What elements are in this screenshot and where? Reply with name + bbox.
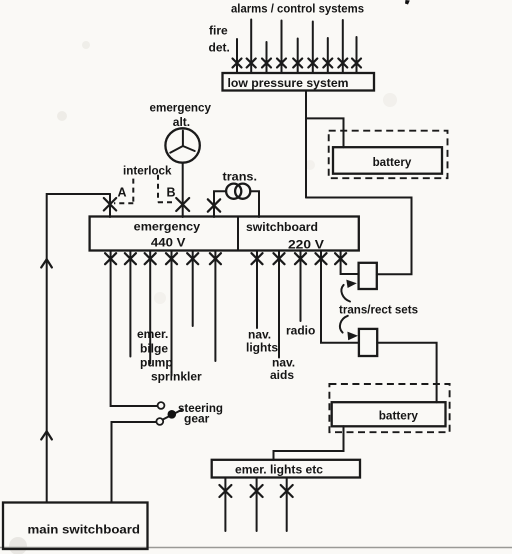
- generator G1 emergency alternator: [165, 128, 199, 162]
- fuse f6: [210, 253, 221, 264]
- trans/rect set 1: [359, 263, 377, 289]
- wire feeder f5: [192, 251, 194, 327]
- label: nav. aids: [270, 356, 295, 383]
- node label A: [118, 186, 127, 200]
- battery B1: [333, 147, 442, 174]
- fuse alarm feeder 9: [352, 59, 361, 68]
- wire feeder s3 (radio): [300, 251, 302, 322]
- svg-text:gear: gear: [184, 412, 210, 426]
- fuse f3: [145, 253, 156, 264]
- fuse f2: [125, 253, 136, 264]
- wire alarm feeder 6: [312, 22, 314, 74]
- battery B2: [332, 402, 446, 426]
- steering gear changeover switch terminal 2: [156, 418, 163, 425]
- wire feeder f6: [214, 251, 216, 362]
- wire alarm feeder 1: [236, 39, 238, 73]
- label: emergency alt.: [150, 101, 212, 130]
- wire alarm feeder 2: [250, 20, 252, 74]
- scan artifact top right: [405, 0, 410, 5]
- label: alarms / control systems: [231, 2, 364, 16]
- transformer T1 winding 2: [235, 184, 250, 199]
- fuse alarm feeder 6: [308, 59, 317, 68]
- fuse alarm feeder 8: [338, 59, 347, 68]
- fuse transformer leg: [208, 199, 220, 211]
- wire low pressure system to batteries: [305, 91, 307, 198]
- wire trans/rect set 2 to battery 2: [377, 343, 436, 402]
- wire alarm feeder 3: [266, 42, 268, 73]
- svg-text:440 V: 440 V: [151, 236, 186, 250]
- emergency switchboard box: [90, 217, 359, 251]
- svg-text:bilge: bilge: [140, 342, 168, 356]
- svg-text:battery: battery: [373, 155, 412, 169]
- steering switch blade: [163, 410, 182, 420]
- breaker A fuse: [104, 198, 116, 211]
- wire feeder f2: [129, 251, 131, 357]
- wire main switchboard to steering: [112, 422, 157, 503]
- fuse f4: [166, 253, 177, 264]
- svg-text:alt.: alt.: [173, 115, 190, 129]
- svg-text:trans.: trans.: [223, 170, 258, 184]
- wire lights feeder 3: [286, 478, 288, 532]
- interlock dashed link B: [158, 175, 175, 202]
- wire transformer left leg: [214, 191, 226, 217]
- wire lights feeder 1: [224, 478, 226, 532]
- pointer arrow to trans/rect set 1: [341, 280, 356, 302]
- fuse alarm feeder 5: [293, 59, 302, 68]
- svg-text:nav.: nav.: [248, 328, 271, 342]
- svg-text:radio: radio: [286, 324, 315, 338]
- transformer T1 winding 1: [226, 184, 241, 199]
- fuse f5: [187, 253, 198, 264]
- battery 1 dashed enclosure: [329, 131, 448, 179]
- label: trans/rect sets: [339, 303, 418, 317]
- label: interlock: [123, 164, 172, 178]
- svg-text:emer.: emer.: [137, 327, 168, 341]
- wire alarm feeder 7: [327, 38, 329, 73]
- svg-text:switchboard: switchboard: [246, 220, 318, 234]
- label: emergency 440 V: [134, 220, 201, 250]
- fuse alarm feeder 2: [247, 59, 256, 68]
- battery 2 dashed enclosure: [329, 384, 449, 432]
- wire feeder s5 to trans/rect set 1: [341, 251, 359, 275]
- fuse s3: [295, 253, 306, 264]
- wire battery 2 to emergency lights: [274, 426, 344, 460]
- svg-text:main switchboard: main switchboard: [28, 523, 141, 537]
- svg-text:aids: aids: [270, 368, 294, 382]
- wire alarm feeder 8: [342, 20, 344, 73]
- label: radio: [286, 324, 315, 338]
- svg-text:interlock: interlock: [123, 164, 172, 178]
- wire feeder f4: [171, 251, 173, 376]
- label: emer. bilge pump sprinkler: [137, 327, 202, 384]
- label: trans.: [223, 170, 258, 184]
- wire feeder f1 (steering supply): [111, 251, 158, 407]
- wire lights feeder 2: [256, 478, 258, 532]
- svg-text:low pressure system: low pressure system: [228, 76, 349, 90]
- fuse alarm feeder 3: [262, 59, 271, 68]
- wire alternator to emergency board: [182, 163, 184, 217]
- fuse alarm feeder 7: [323, 59, 332, 68]
- fuse s5: [335, 253, 346, 264]
- fuse lights feeder 2: [251, 485, 263, 497]
- wire feeder s2 (nav aids): [278, 251, 280, 358]
- fuse lights feeder 1: [219, 485, 231, 497]
- scan artifact bottom rule: [0, 547, 512, 549]
- label: switchboard 220 V: [246, 220, 324, 252]
- svg-text:220 V: 220 V: [288, 238, 324, 252]
- arrowhead riser 2: [41, 431, 52, 439]
- node label B: [167, 186, 176, 200]
- box: low pressure system: [223, 73, 375, 91]
- wire feeder f3: [149, 251, 151, 364]
- box: main switchboard: [3, 503, 148, 550]
- svg-text:battery: battery: [379, 409, 419, 423]
- svg-text:sprinkler: sprinkler: [151, 370, 202, 384]
- svg-text:pump: pump: [140, 356, 173, 370]
- wire transformer right leg: [250, 191, 259, 217]
- trans/rect set 2: [359, 329, 377, 356]
- fuse s4: [316, 253, 327, 264]
- wire branch to battery 1: [306, 118, 344, 147]
- svg-text:A: A: [118, 186, 127, 200]
- box: emer. lights etc: [212, 460, 360, 478]
- wire feeder s1 (nav lights): [256, 251, 258, 329]
- fuse alarm feeder 4: [277, 59, 286, 68]
- steering switch pivot dot: [168, 410, 177, 419]
- wire alarm feeder 9: [356, 37, 358, 73]
- svg-text:emergency: emergency: [134, 220, 201, 234]
- pointer arrow to trans/rect set 2: [340, 316, 358, 341]
- svg-text:lights: lights: [246, 341, 278, 355]
- svg-text:det.: det.: [209, 41, 230, 55]
- label: nav. lights: [246, 328, 278, 355]
- fuse alarm feeder 1: [233, 59, 242, 68]
- interlock dashed link A: [114, 179, 133, 204]
- wire main switchboard riser: [47, 194, 110, 503]
- svg-text:trans/rect sets: trans/rect sets: [339, 303, 418, 317]
- wire alarm feeder 5: [297, 39, 299, 74]
- divider emergency / switchboard: [237, 217, 239, 251]
- fuse f1: [105, 253, 116, 264]
- fuse lights feeder 3: [281, 485, 293, 497]
- wire alarm feeder 4: [281, 21, 283, 74]
- label: fire det.: [209, 24, 230, 55]
- svg-text:emergency: emergency: [150, 101, 212, 115]
- svg-text:B: B: [167, 186, 176, 200]
- arrowhead riser 1: [41, 259, 52, 267]
- wire low pressure system to trans/rect set 1: [306, 198, 412, 275]
- wire riser drop to emergency board: [109, 194, 111, 217]
- label: steering gear: [178, 401, 223, 426]
- svg-text:alarms / control systems: alarms / control systems: [231, 2, 364, 16]
- fuse s2: [274, 253, 285, 264]
- svg-text:fire: fire: [209, 24, 228, 38]
- wire feeder s4 to trans/rect set 2: [321, 251, 359, 343]
- fuse s1: [252, 253, 263, 264]
- steering gear changeover switch terminal 1: [158, 402, 165, 409]
- svg-text:emer. lights etc: emer. lights etc: [235, 463, 323, 477]
- breaker B fuse: [176, 198, 189, 211]
